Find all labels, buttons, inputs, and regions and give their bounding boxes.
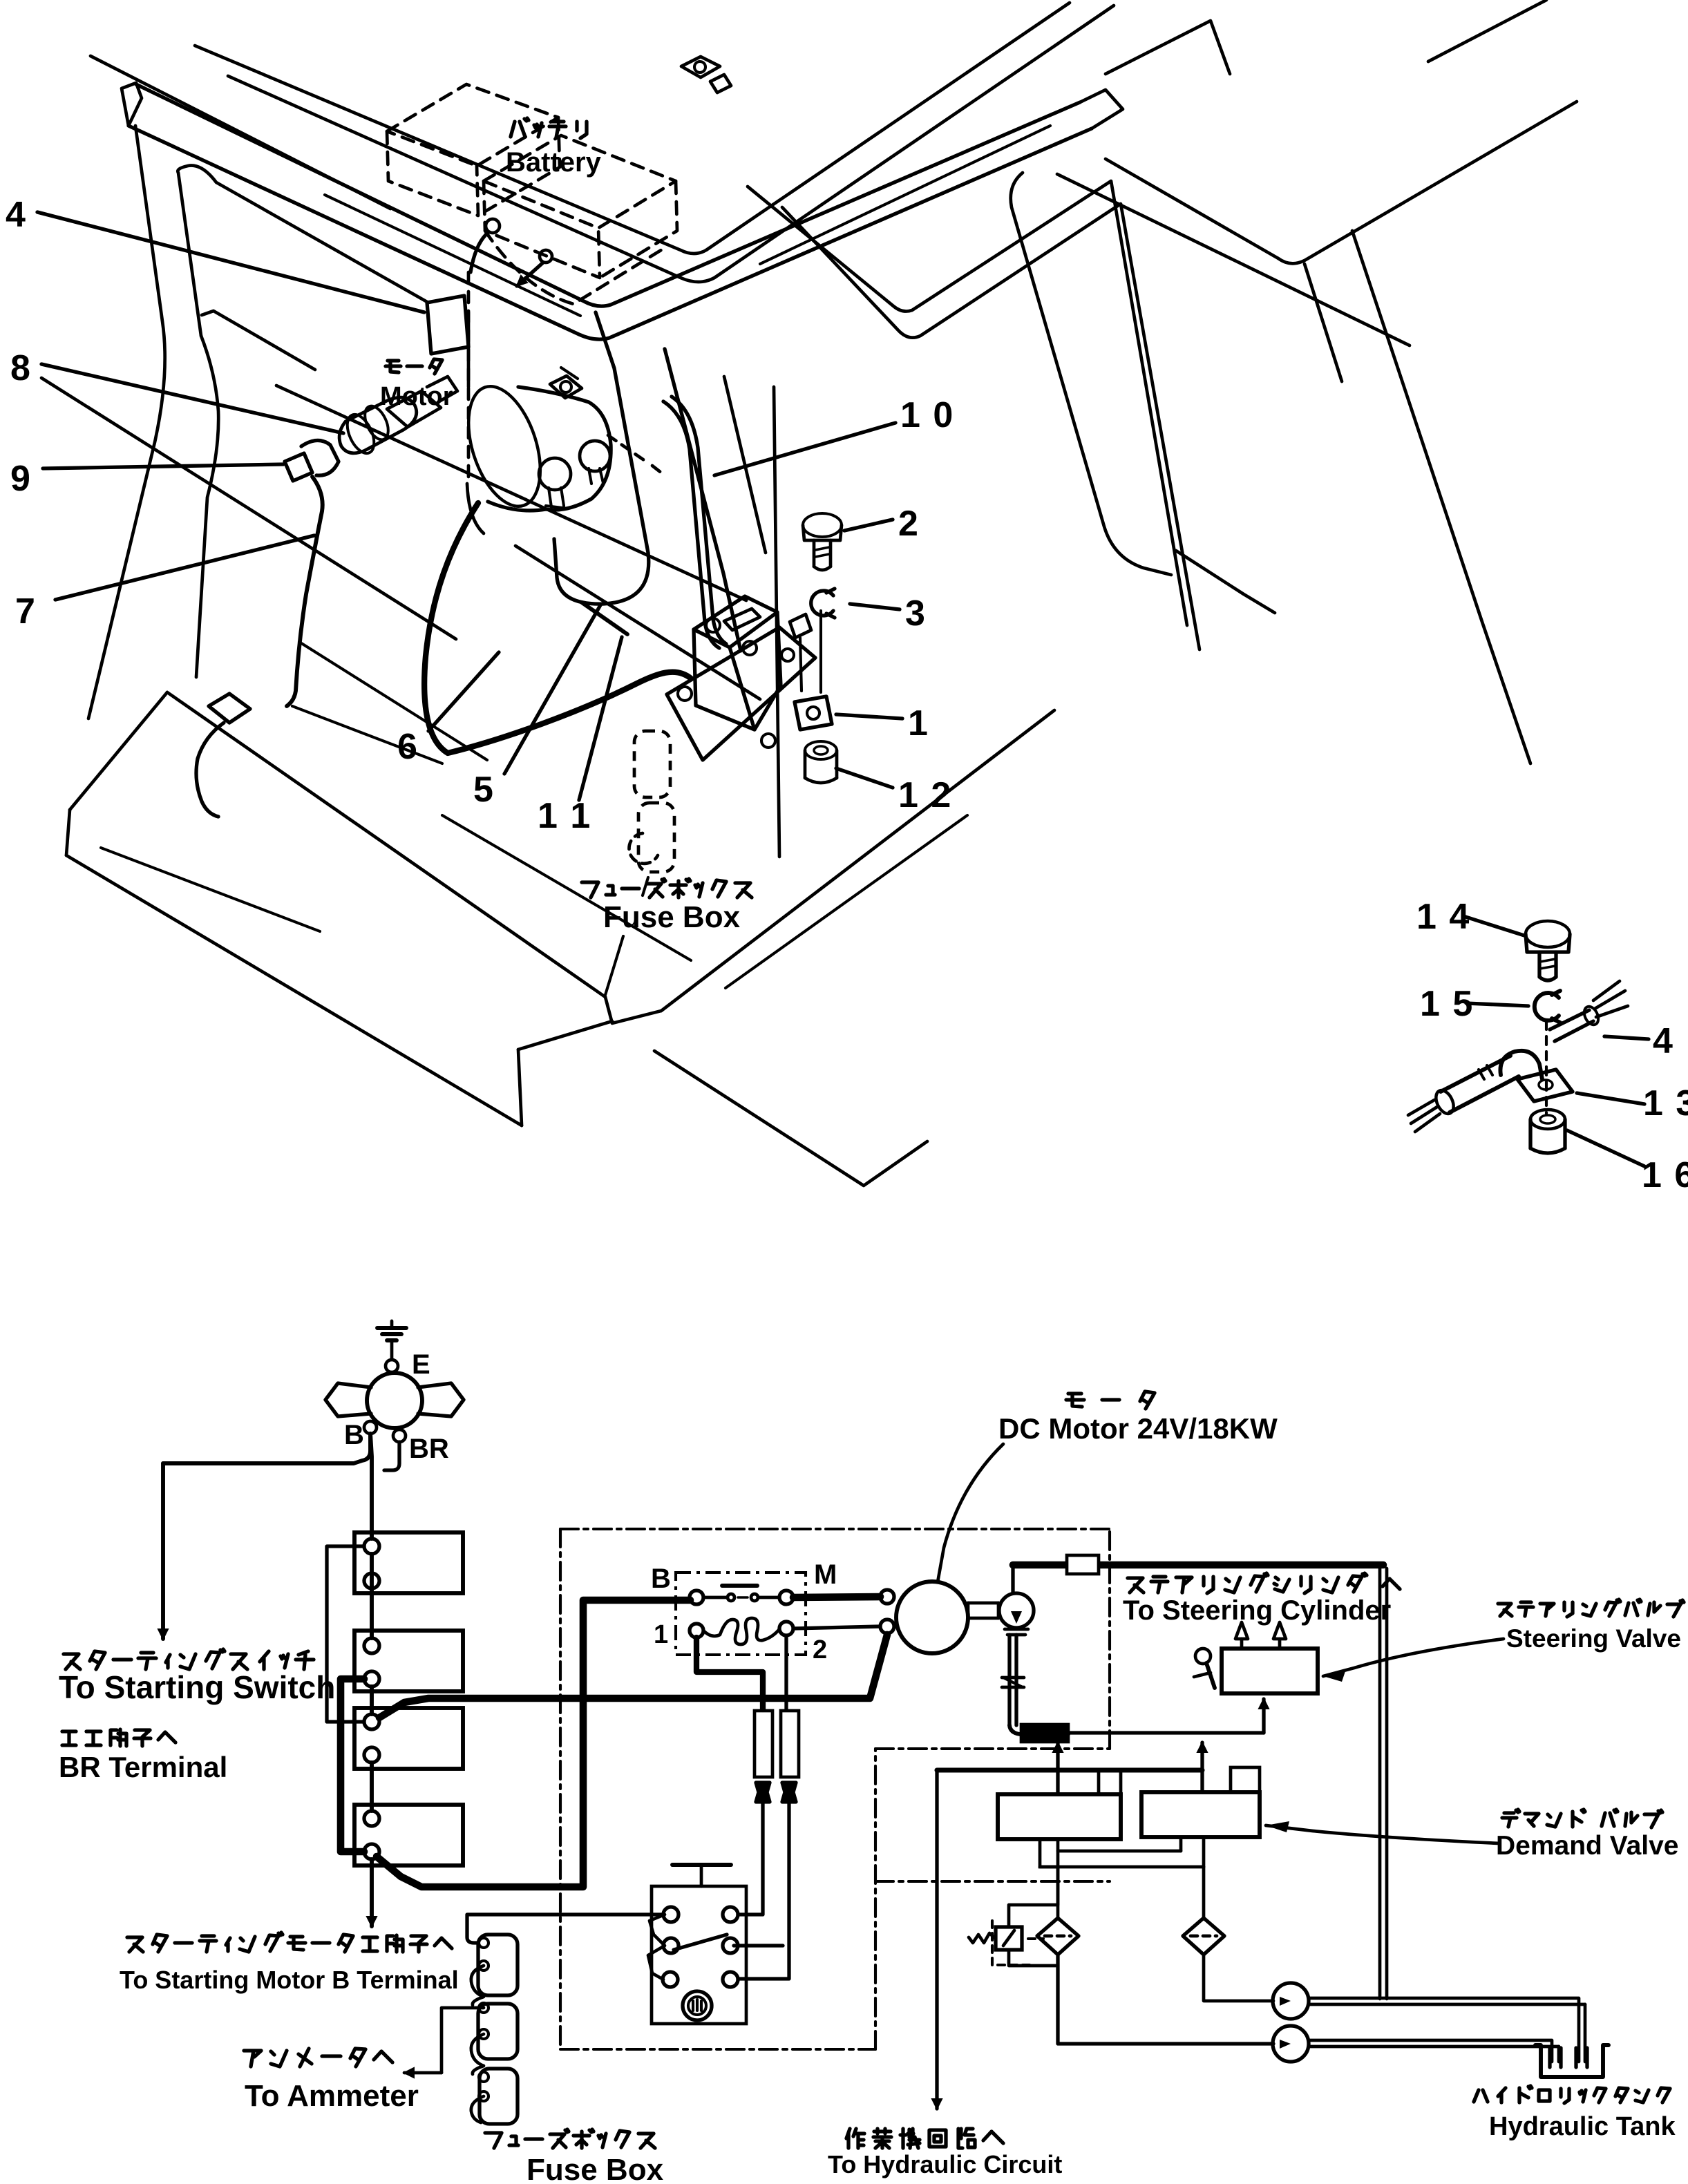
svg-text:Steering Valve: Steering Valve [1506, 1624, 1681, 1653]
A-frame window outline [1011, 173, 1171, 575]
svg-text:1 1: 1 1 [538, 796, 591, 836]
switch terminal 6 [723, 1972, 738, 1987]
callout 8 leader [41, 364, 343, 433]
A-frame left leg outer edge [88, 126, 165, 719]
wire to starting motor B terminal arrow [367, 1859, 377, 1926]
dc motor label [998, 1412, 1278, 1445]
label hydraulic tank kana [1474, 2086, 1670, 2103]
relay box border [676, 1573, 806, 1655]
switch terminal 1 [663, 1907, 679, 1922]
battery terminal post 2 [540, 250, 552, 263]
svg-text:1: 1 [654, 1620, 668, 1649]
wire relay 2 to motor [793, 1626, 880, 1628]
connector clamp [301, 440, 339, 475]
starting switch box [652, 1886, 746, 2024]
steering valve lever [1194, 1649, 1215, 1688]
fuse box dashed link 2 [638, 803, 674, 872]
demand valve left body [998, 1794, 1121, 1839]
relay terminal M [779, 1590, 793, 1604]
relay top hole 1 [706, 618, 720, 632]
label 15 [1420, 984, 1474, 1024]
relay terminal B [690, 1590, 703, 1604]
switch terminal 5 [663, 1972, 678, 1987]
callout 9 leader [43, 464, 283, 468]
relay base plate [667, 627, 815, 760]
label fuse box schematic kana [485, 2129, 655, 2148]
inner boundary horizontal [875, 1880, 1110, 1883]
label hydraulic circuit kana [846, 2129, 1003, 2148]
dc motor terminal lower [880, 1620, 894, 1633]
label B (alternator) [344, 1420, 364, 1450]
battery dashed box 2 top face [484, 135, 676, 228]
wire outer thick bus (cell2 to cell4) [341, 1679, 364, 1852]
battery cell 3 [354, 1708, 463, 1769]
svg-text:DC Motor 24V/18KW: DC Motor 24V/18KW [998, 1412, 1278, 1445]
callout 8 label [10, 348, 30, 388]
motor body top line [518, 387, 589, 402]
svg-text:Fuse Box: Fuse Box [527, 2153, 664, 2184]
right frame notch [1106, 21, 1230, 74]
switch internal bar [674, 1935, 727, 1950]
callout 4 leader [37, 212, 424, 312]
svg-text:Hydraulic Tank: Hydraulic Tank [1489, 2112, 1676, 2141]
spacer 12 [805, 741, 837, 783]
steering valve arrows up [1235, 1622, 1286, 1649]
label Steering Valve [1506, 1624, 1681, 1653]
relay body top face [694, 596, 777, 647]
cable 4 main cylinder [1432, 1056, 1519, 1117]
label relay 2 [813, 1635, 827, 1664]
wire W2 battery to motor [379, 1635, 887, 1718]
callout 1 leader [836, 714, 902, 719]
motor lifting eye [550, 368, 582, 398]
battery cell 2 terminals [364, 1638, 379, 1687]
clamp 13 plate [1517, 1070, 1573, 1101]
demand valve riser right [1197, 1743, 1207, 1792]
relay coil terminal 2 [779, 1622, 793, 1635]
switch terminal 4 [723, 1938, 738, 1953]
fuse wiggle 3 [471, 2096, 484, 2123]
hood band A lower edge [228, 6, 1114, 282]
pillar inner edge [724, 377, 766, 553]
label 4 detail [1653, 1021, 1673, 1061]
floor face inner line [101, 848, 320, 931]
svg-text:B: B [344, 1420, 364, 1450]
hood hinge bolt [681, 57, 731, 93]
ground symbol [377, 1321, 406, 1340]
motor shaft [968, 1603, 998, 1618]
cable hatch marks [1479, 1065, 1492, 1079]
clamp 13 saddle [1500, 1051, 1542, 1079]
bolt 2 shank [814, 540, 831, 570]
label To Hydraulic Circuit [828, 2150, 1062, 2178]
relay base hole 2 [761, 734, 775, 748]
svg-text:Fuse Box: Fuse Box [603, 900, 741, 934]
svg-text:8: 8 [10, 348, 30, 388]
harness wire 10 inner [672, 397, 726, 644]
wire BR hook [384, 1442, 399, 1470]
label starting switch kana [64, 1649, 314, 1669]
battery dashed box 2 front face [484, 181, 600, 278]
pump line lower [1058, 1955, 1273, 2044]
pipe coupling top [1067, 1555, 1099, 1574]
fuse box label (top) [603, 900, 741, 934]
demand valve interconnect upper [1058, 1839, 1181, 1851]
svg-text:BR: BR [409, 1434, 449, 1464]
floor plate left top edge [70, 692, 167, 810]
pipe pump down [1009, 1635, 1016, 1725]
right frame window corner [1176, 551, 1275, 613]
relay top hole 2 [743, 641, 757, 655]
detail bolt 14 shank [1539, 952, 1556, 980]
detail bolt 14 head [1526, 921, 1570, 952]
svg-text:9: 9 [10, 459, 30, 499]
leader 16 [1567, 1130, 1644, 1166]
battery terminal lead 1 [471, 232, 489, 272]
wire connector left down [738, 1802, 763, 1915]
machine boundary top edge [560, 1528, 1110, 1530]
dashed assembly axis [1545, 1021, 1548, 1114]
dc motor circle [896, 1582, 968, 1653]
relay contact points [703, 1594, 779, 1601]
label 14 [1416, 897, 1470, 937]
motor rear face [546, 402, 611, 510]
battery terminal lead 2 arrow [517, 263, 543, 286]
callout 10 leader [714, 423, 895, 475]
motor label [380, 382, 453, 411]
callout 12 label [898, 775, 952, 815]
demand valve left pilot box [1099, 1770, 1121, 1794]
callout 10 label [900, 395, 954, 435]
floor plate step vertical [518, 1050, 522, 1126]
wire to ammeter [404, 2008, 484, 2078]
work circuit junction line [937, 1767, 1202, 1772]
svg-text:5: 5 [473, 770, 493, 810]
battery cable dashed drop [467, 272, 471, 484]
demand valve riser left [1053, 1743, 1063, 1794]
svg-text:1 3: 1 3 [1643, 1083, 1688, 1123]
label Demand Valve [1496, 1831, 1678, 1861]
wire W1 battery to relay B [377, 1600, 690, 1887]
floor plate step lower edge [518, 1021, 612, 1050]
fuse box leader tick [643, 877, 648, 895]
svg-text:1 0: 1 0 [900, 395, 954, 435]
A-frame left leg inner edge [178, 166, 428, 336]
switch left linkage [648, 1915, 665, 1979]
label E [412, 1349, 430, 1380]
wire switch MR jog [734, 1944, 783, 1947]
relief valve arrow [1003, 1930, 1014, 1946]
hood edge upper line [91, 56, 390, 209]
wire switch TL to fuse box [467, 1915, 663, 1943]
label relay B [651, 1564, 671, 1594]
demand valve interconnect lower [1040, 1837, 1204, 1867]
alternator left wing [325, 1383, 371, 1416]
fuse box dashed link 1 [634, 731, 670, 797]
small parts axis line [819, 611, 822, 692]
svg-text:To Hydraulic Circuit: To Hydraulic Circuit [828, 2150, 1062, 2178]
motor body bottom line [488, 502, 546, 511]
hydraulic pump circle [999, 1593, 1034, 1628]
schematic fuse box cell B [478, 2004, 518, 2059]
cable end fitting [387, 391, 441, 427]
callout 3 label [905, 594, 925, 634]
cowl bar top edge [136, 84, 1080, 306]
pipe pump up [1011, 1565, 1014, 1593]
leader 14 [1463, 916, 1524, 936]
machine boundary bottom edge [560, 2048, 875, 2051]
filter right diamond [1183, 1918, 1224, 1955]
battery cell 3 terminals [364, 1714, 379, 1763]
connector square 9 [285, 453, 312, 481]
machine boundary left edge [559, 1529, 562, 2049]
schematic fuse box cell C [480, 2069, 518, 2124]
fusible link left [755, 1711, 772, 1777]
label relay 1 [654, 1620, 668, 1649]
callout 11 leader [579, 637, 622, 800]
floor cable tail [196, 723, 224, 817]
svg-text:1: 1 [908, 703, 928, 743]
label Fuse Box schematic [527, 2153, 664, 2184]
pipe to steering valve [1068, 1731, 1264, 1734]
switch terminal 2 [723, 1907, 738, 1922]
harness wire 10 outer [663, 401, 719, 648]
alternator circle [367, 1373, 422, 1428]
cable boot ring 1 [360, 403, 392, 444]
hood inner flange lower [782, 204, 1199, 649]
svg-text:Battery: Battery [506, 147, 602, 178]
battery cell 4 terminals [364, 1811, 379, 1859]
steering valve leader [1323, 1639, 1504, 1682]
cowl bar inner highlight right [760, 126, 1050, 264]
label To Starting Motor B Terminal [120, 1966, 459, 1994]
floor plate left face edge [66, 810, 70, 855]
switch keyhole [683, 1991, 712, 2020]
motor label kana [386, 359, 442, 374]
svg-text:1 2: 1 2 [898, 775, 952, 815]
motor terminal stud 2 [580, 441, 610, 484]
callout 9 label [10, 459, 30, 499]
battery dashed bottom curve [485, 231, 663, 304]
hydraulic tank [1535, 2045, 1609, 2077]
pipe elbow coupling [1009, 1725, 1068, 1742]
svg-text:6: 6 [397, 727, 417, 767]
terminal BR circle [393, 1430, 406, 1442]
battery terminal post 1 [486, 219, 500, 233]
dc motor leader [938, 1444, 1003, 1582]
label starting motor kana [127, 1933, 452, 1952]
callout 3 leader [850, 604, 900, 609]
battery dashed box 1 right face [478, 117, 560, 216]
wire B to cell1 [370, 1434, 372, 1539]
battery dashed box 1 top face [387, 84, 558, 166]
label BR [409, 1434, 449, 1464]
callout 2 leader [844, 520, 893, 531]
cable 4 upper segment [1550, 1004, 1601, 1041]
label 13 [1643, 1083, 1688, 1123]
battery cell 1 terminals [364, 1539, 379, 1588]
connector right [782, 1783, 796, 1802]
wire relay M to motor [793, 1597, 880, 1597]
svg-text:M: M [814, 1559, 837, 1590]
A-frame apex cap [1080, 90, 1123, 129]
relief valve bypass top [1009, 1867, 1058, 1927]
battery cell 4 [354, 1805, 463, 1865]
fuse box label kana (top) [582, 879, 752, 898]
bolt 2 head [803, 513, 842, 540]
A-frame window right edge [1057, 174, 1410, 345]
fusible link right [781, 1711, 799, 1777]
cable clamp plate 4 [427, 296, 468, 354]
callout 7 label [15, 591, 35, 632]
svg-text:Demand Valve: Demand Valve [1496, 1831, 1678, 1861]
alternator right wing [418, 1383, 464, 1416]
cable 4 wire tails lower [1408, 1100, 1440, 1132]
callout 4 label [6, 195, 26, 235]
fuse box cell dots [479, 1938, 489, 2101]
relay top window [724, 609, 760, 630]
to hydraulic circuit arrow [932, 1770, 942, 2109]
filter left drop line [1056, 1867, 1060, 1918]
dc motor terminal upper [880, 1590, 894, 1604]
pump flange [1005, 1629, 1028, 1635]
cable boot body [339, 397, 417, 453]
wire cell3-cell4 [370, 1763, 374, 1811]
battery cell 2 [354, 1631, 463, 1691]
floor plate front top edge [167, 692, 605, 997]
svg-text:To Steering Cylinder: To Steering Cylinder [1123, 1595, 1391, 1626]
leader 13 [1577, 1093, 1644, 1104]
wire outer thin bus (cell1 to cell3) [327, 1546, 364, 1722]
relief valve dashed box [992, 1921, 1043, 1965]
left fender lower diagonal [276, 386, 746, 600]
pipe fitting [1002, 1678, 1024, 1687]
callout 6 leader [428, 652, 499, 731]
schematic fuse box cell A [478, 1935, 518, 1995]
harness segment near pillar [582, 602, 627, 634]
wire connector right down [738, 1802, 789, 1979]
hood band A top edge [195, 3, 1070, 254]
cable 4 wire tails upper [1593, 981, 1628, 1017]
fuse wiggle 2 [471, 2034, 484, 2074]
svg-text:BR Terminal: BR Terminal [59, 1751, 227, 1783]
cowl bar bottom edge [129, 126, 1092, 339]
svg-text:4: 4 [1653, 1021, 1673, 1061]
label 16 [1642, 1155, 1688, 1195]
relay base hole 1 [678, 687, 692, 701]
machine boundary jog edge [875, 1747, 1110, 1750]
cowl bar inner highlight left [325, 195, 580, 316]
relief valve bypass bottom [1009, 1950, 1058, 1966]
demand valve right pilot box [1231, 1767, 1260, 1792]
fuse box leader line [605, 936, 623, 995]
label BR Terminal [59, 1751, 227, 1783]
svg-text:E: E [412, 1349, 430, 1380]
wire relay 2 drop [784, 1635, 788, 1709]
callout 11 label [538, 796, 591, 836]
motor terminal stud 1 [539, 458, 571, 509]
label To Starting Switch [59, 1669, 335, 1705]
callout 6 label [397, 727, 417, 767]
floor top inner line right [726, 815, 967, 988]
pump 2 outlet [1309, 2040, 1559, 2062]
cable end tip [427, 377, 457, 402]
demand valve right body [1141, 1792, 1260, 1837]
floor plate notch [605, 997, 661, 1023]
floor plate right edge [661, 710, 1054, 1011]
relay body side face [755, 612, 781, 730]
relay coil [703, 1618, 779, 1644]
relay base hole 3 [781, 649, 794, 661]
battery cell 1 [354, 1532, 463, 1593]
switch handle [672, 1865, 731, 1886]
label steering cylinder kana [1128, 1573, 1400, 1593]
label steering valve kana [1498, 1599, 1684, 1617]
battery dashed box 2 right face [600, 181, 677, 278]
leader 15 [1466, 1003, 1528, 1006]
battery label [506, 147, 602, 178]
machine boundary right lower edge [874, 1749, 877, 2049]
floor cable connector diamond [209, 694, 250, 723]
leader 4 detail [1604, 1036, 1649, 1039]
label relay M [814, 1559, 837, 1590]
left fender top edge line [41, 378, 456, 639]
left fender arch [196, 336, 218, 677]
svg-text:2: 2 [813, 1635, 827, 1664]
cable boot ring 2 [342, 410, 379, 457]
terminal E [386, 1340, 398, 1372]
svg-text:B: B [651, 1564, 671, 1594]
callout 5 leader [504, 604, 601, 774]
cable from connector [287, 477, 323, 706]
dc motor label kana [1066, 1392, 1155, 1409]
relay contact bar [722, 1584, 757, 1588]
demand valve left bottom box [1040, 1839, 1058, 1867]
svg-text:3: 3 [905, 594, 925, 634]
wire cell2-cell3 [370, 1687, 374, 1714]
battery dashed box 1 front face [387, 131, 478, 216]
floor top inner line 2 [292, 706, 442, 763]
pipe top run [1013, 1561, 1383, 1569]
label demand valve kana [1502, 1810, 1662, 1827]
relay coil terminal 1 [690, 1624, 703, 1637]
harness main run [424, 503, 691, 753]
pump 1 outlet [1309, 1998, 1585, 2062]
right frame leg outer edge [1352, 231, 1530, 763]
battery label kana [511, 118, 587, 138]
callout 1 label [908, 703, 928, 743]
svg-text:To Starting Switch: To Starting Switch [59, 1669, 335, 1705]
label To Ammeter [245, 2079, 419, 2113]
relief valve square [996, 1927, 1022, 1950]
spacer 16 [1530, 1110, 1565, 1153]
relief valve spring [969, 1933, 996, 1943]
terminal B circle [364, 1421, 377, 1434]
steering valve feed arrow [1259, 1699, 1269, 1733]
right fender short inner edge [1305, 264, 1342, 381]
filter right drop line [1202, 1867, 1206, 1918]
pillar left edge [596, 312, 648, 553]
pillar hidden cable dashes [608, 435, 665, 475]
cowl bar end cap [122, 83, 142, 126]
relay mounting tab [790, 614, 811, 691]
pillar window bottom [554, 539, 649, 604]
left fender step [202, 311, 315, 370]
switch terminal 3 [663, 1938, 679, 1953]
floor plate right face [654, 1051, 927, 1186]
fuse wiggle 1 [471, 1966, 484, 2005]
relay body front face [694, 629, 755, 730]
